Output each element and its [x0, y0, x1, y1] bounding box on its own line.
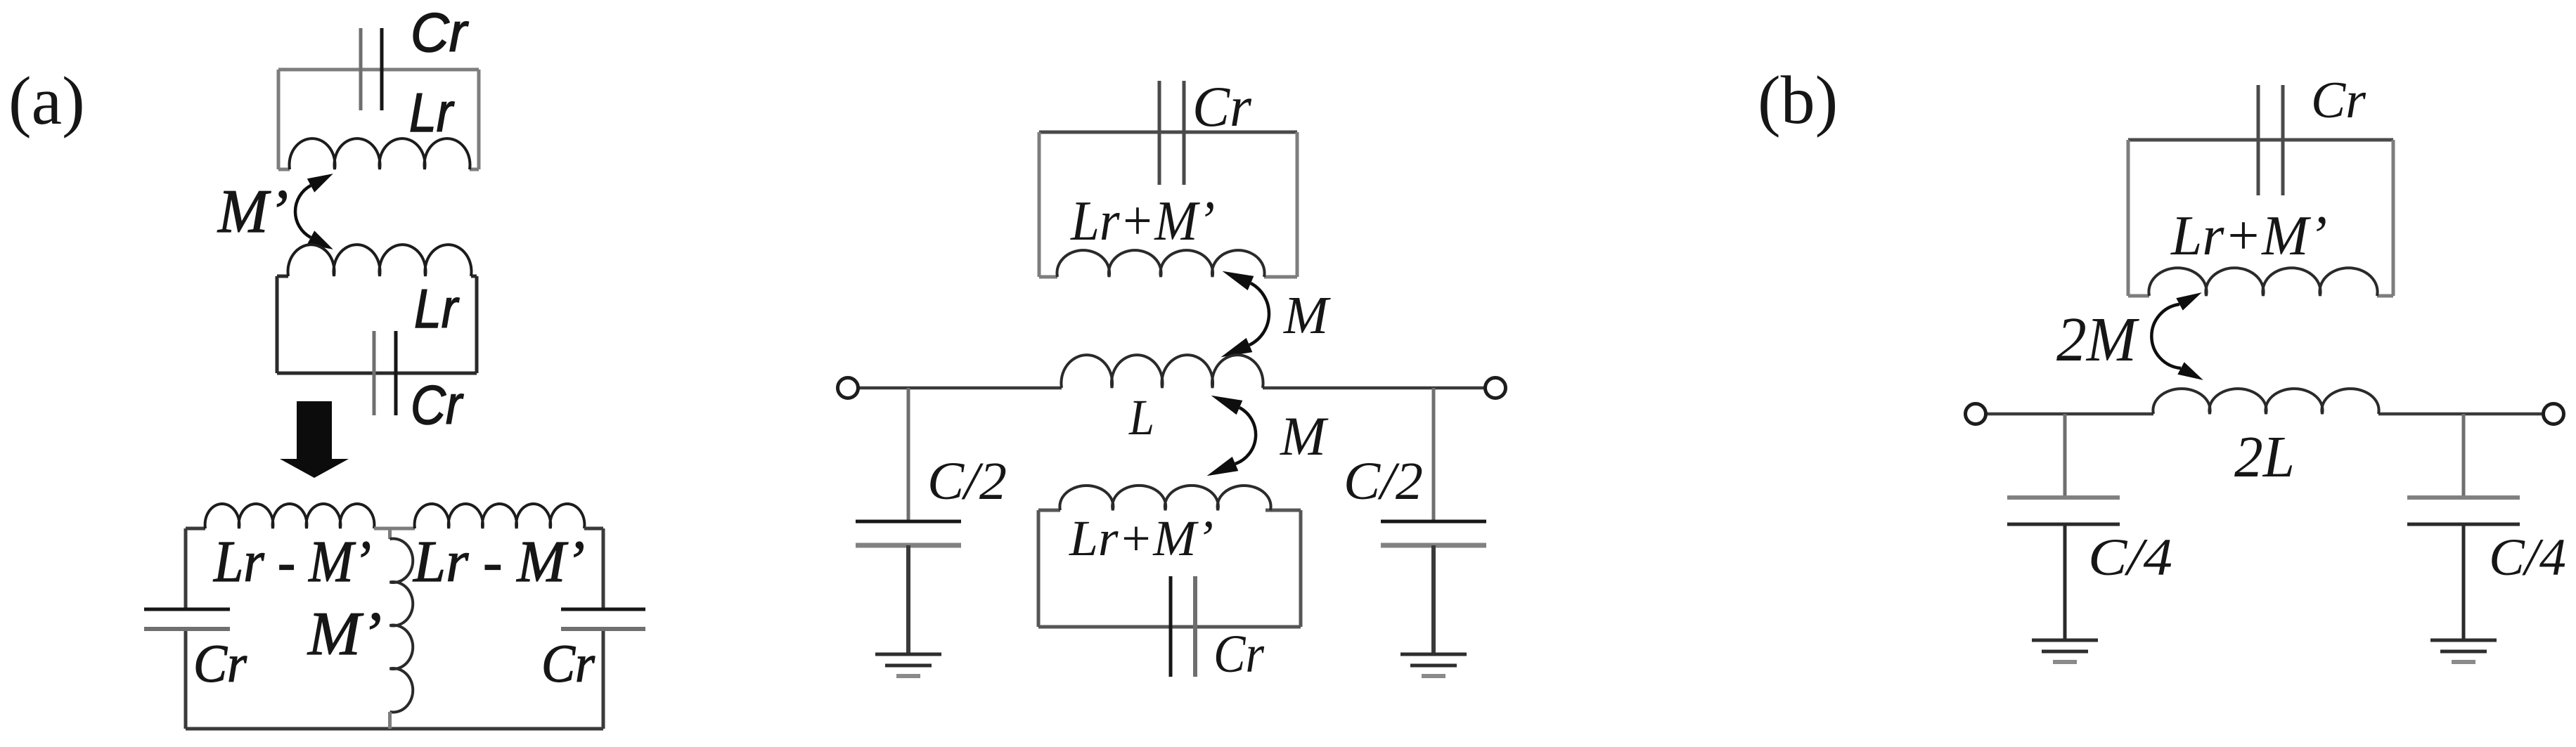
svg-text:Lr+M’: Lr+M’: [1070, 190, 1215, 252]
svg-text:Lr: Lr: [414, 278, 460, 339]
svg-text:C/4: C/4: [2489, 528, 2566, 587]
svg-text:Lr - M’: Lr - M’: [213, 529, 371, 595]
svg-text:Cr: Cr: [411, 374, 464, 436]
svg-text:Cr: Cr: [193, 635, 247, 694]
svg-text:Lr - M’: Lr - M’: [413, 529, 585, 595]
svg-text:Lr+M’: Lr+M’: [2170, 205, 2327, 267]
svg-text:M: M: [1283, 286, 1331, 345]
svg-text:(b): (b): [1758, 63, 1838, 138]
svg-text:M’: M’: [307, 600, 382, 668]
svg-text:C/2: C/2: [1344, 452, 1423, 511]
svg-text:Lr+M’: Lr+M’: [1069, 510, 1213, 566]
svg-text:Cr: Cr: [2311, 72, 2366, 129]
svg-text:Cr: Cr: [541, 635, 595, 694]
svg-text:2M: 2M: [2056, 305, 2140, 375]
svg-text:C/2: C/2: [927, 452, 1007, 511]
svg-text:(a): (a): [8, 63, 85, 139]
svg-text:M: M: [1280, 405, 1329, 467]
svg-text:Cr: Cr: [1192, 74, 1252, 138]
svg-text:Lr: Lr: [409, 82, 455, 143]
svg-text:L: L: [1128, 389, 1154, 446]
svg-text:Cr: Cr: [1213, 625, 1264, 684]
svg-text:Cr: Cr: [411, 1, 469, 63]
svg-text:2L: 2L: [2234, 424, 2295, 490]
svg-text:C/4: C/4: [2088, 528, 2172, 587]
svg-text:M’: M’: [217, 178, 288, 246]
